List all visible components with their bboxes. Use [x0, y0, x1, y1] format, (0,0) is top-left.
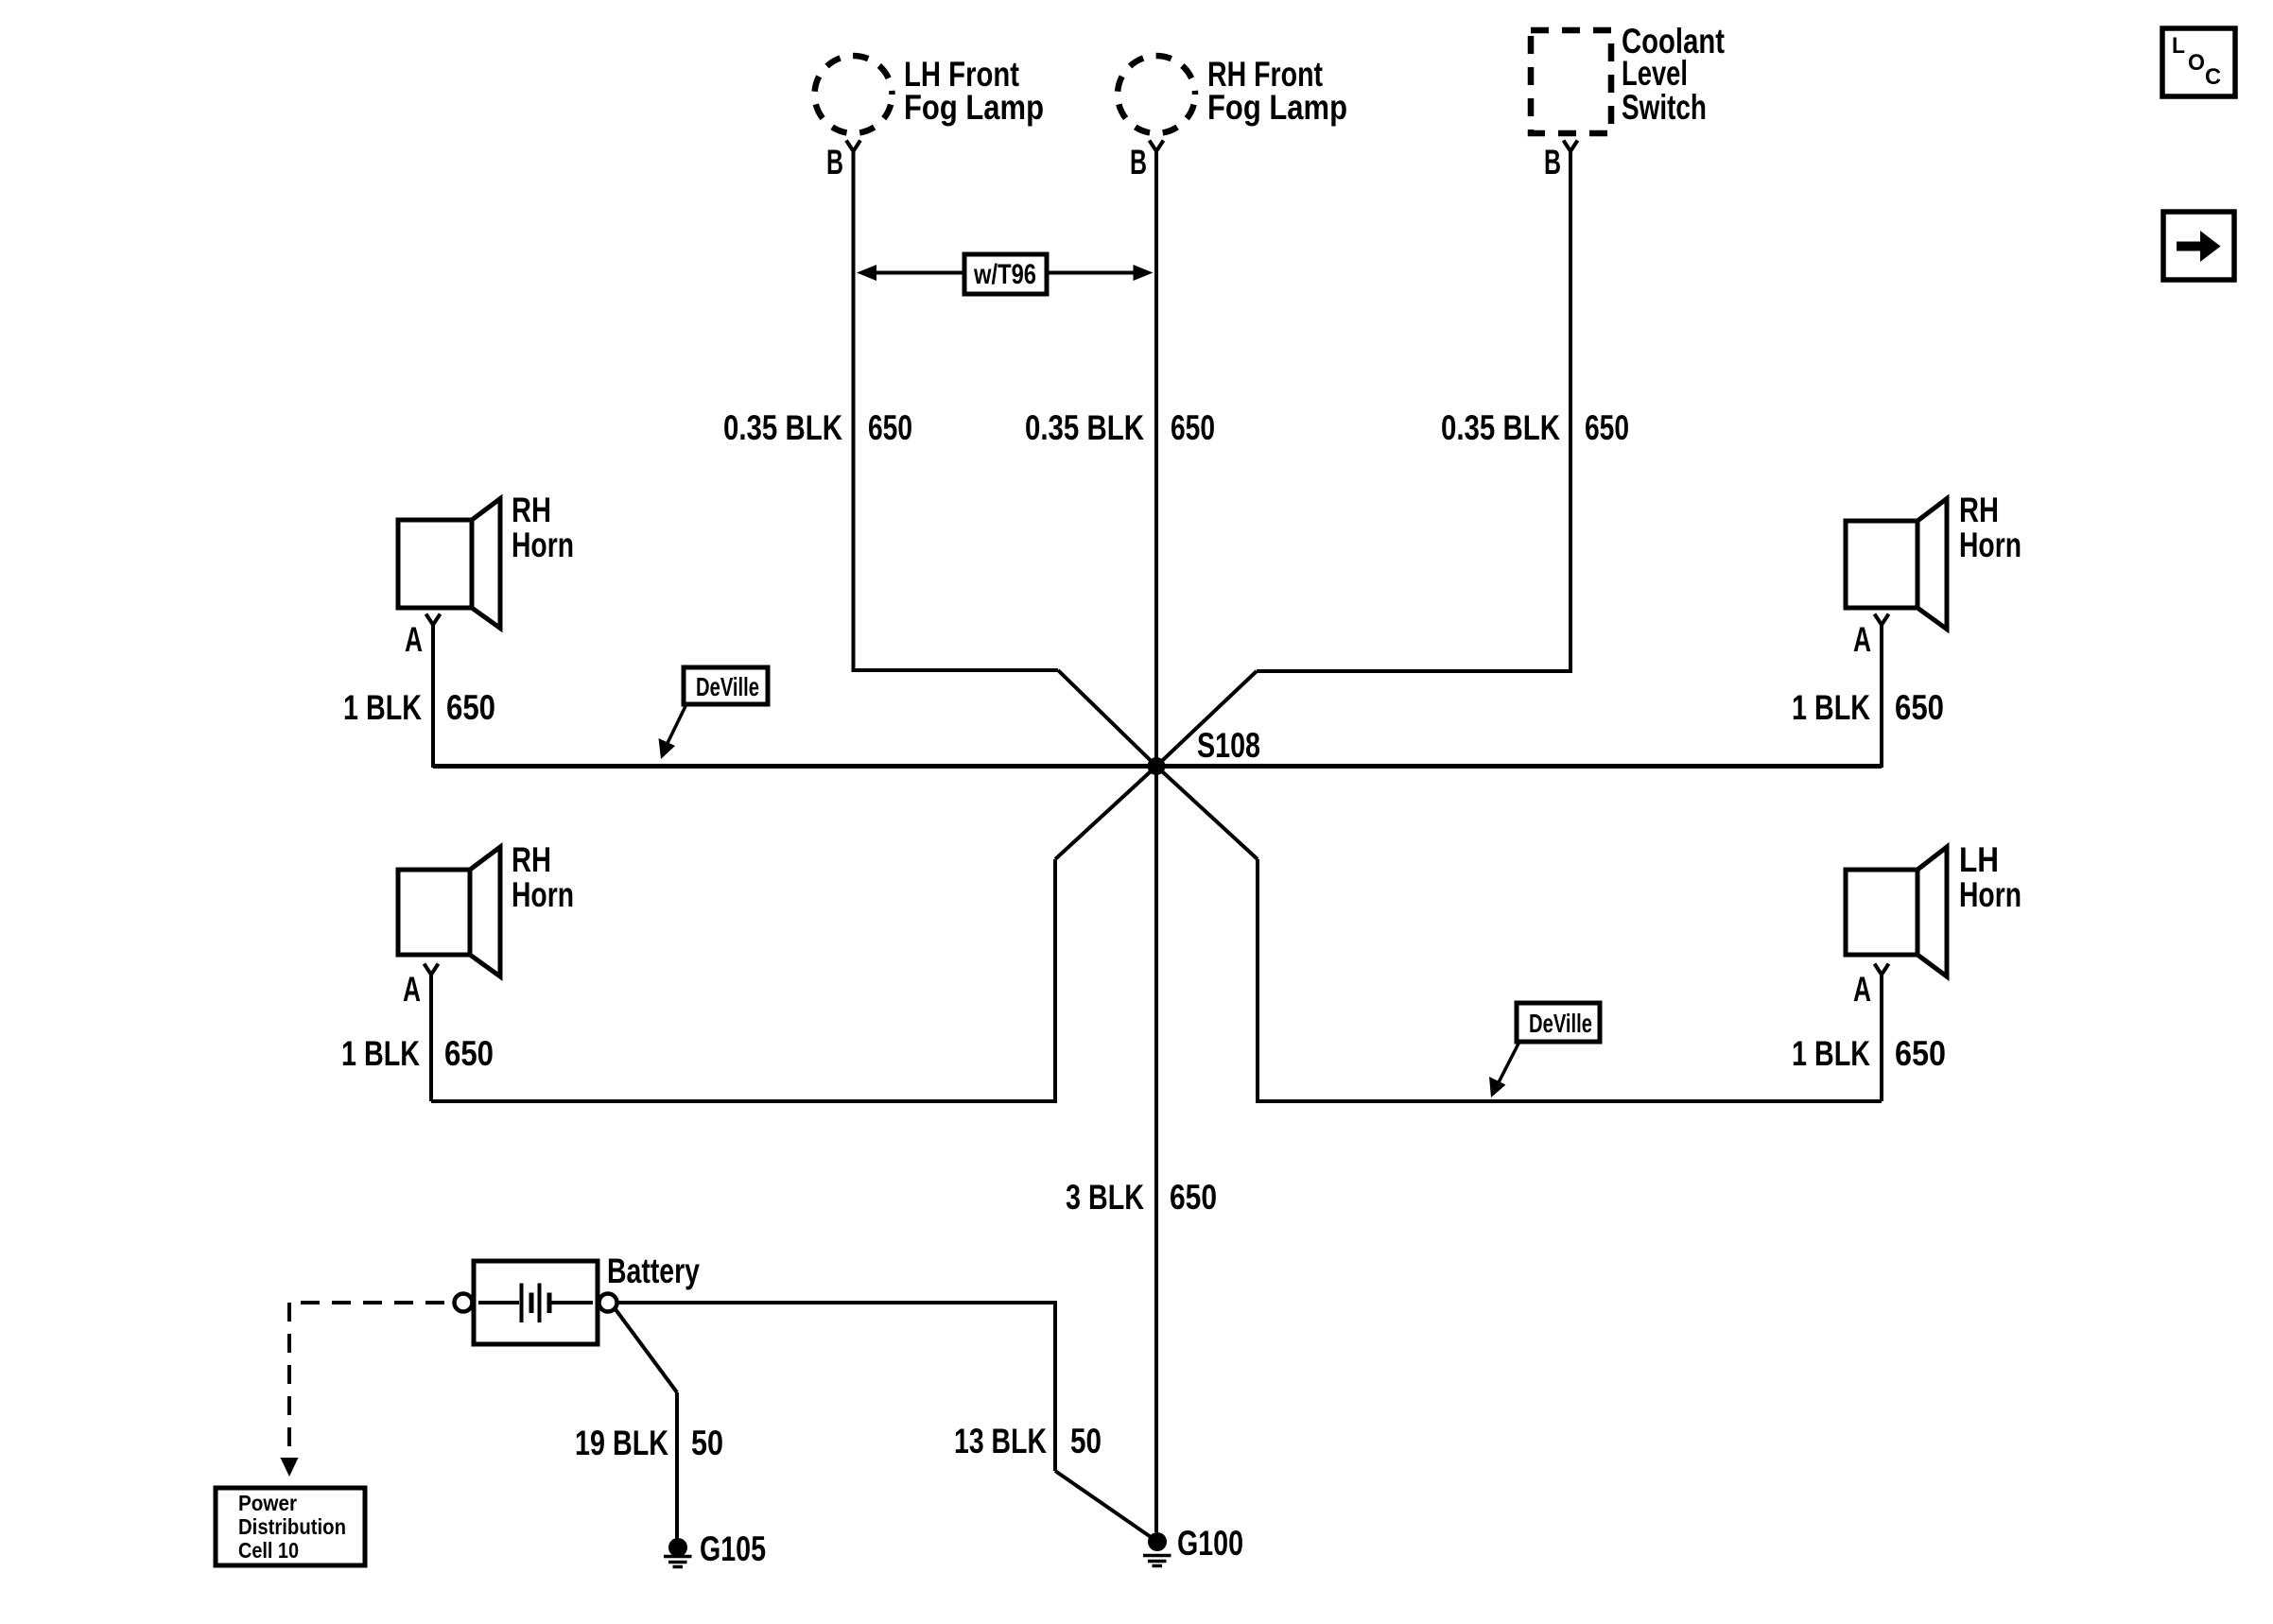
svg-text:DeVille: DeVille [1529, 1009, 1592, 1038]
splice node S108 dot [1148, 757, 1166, 775]
svg-text:L: L [2172, 33, 2185, 59]
wire from lower-right horn down [1880, 975, 1883, 1101]
wire lower-right horizontal [1256, 1099, 1882, 1103]
DeVille callout box (lower right) [1517, 1003, 1600, 1042]
RH Horn lower-left label [512, 840, 574, 914]
svg-text:Horn: Horn [512, 875, 574, 914]
wire coolant horizontal jog [1257, 669, 1572, 673]
wire coolant diagonal into S108 [1156, 671, 1257, 767]
pin label A (lower-right horn) [1853, 970, 1871, 1009]
pin B connector Y of coolant level switch [1564, 141, 1578, 152]
wire S108 diagonal down-left [1055, 767, 1156, 860]
svg-text:Fog Lamp: Fog Lamp [1207, 88, 1347, 127]
wire from top-left horn down to main horizontal [431, 625, 435, 768]
dashed wire from battery to power distribution [289, 1301, 444, 1304]
svg-text:A: A [405, 620, 423, 659]
wire label 19 BLK 50 [575, 1424, 723, 1462]
svg-text:650: 650 [446, 688, 495, 727]
battery cell symbol [478, 1284, 593, 1323]
main horizontal wire through S108 [433, 764, 1882, 769]
w/T96 harness range arrow (double-headed) [872, 271, 1138, 275]
pin label B (coolant level switch) [1544, 143, 1561, 181]
wire from RH fog lamp straight down through S108 to G100 [1154, 151, 1158, 1532]
wire label 0.35 BLK 650 (LH fog) [723, 408, 912, 447]
svg-text:B: B [826, 143, 843, 181]
wire lower-left vertical riser [1053, 859, 1057, 1099]
svg-text:RH: RH [512, 491, 551, 529]
svg-text:1 BLK: 1 BLK [1792, 1034, 1870, 1073]
DeVille callout arrow (upper) [668, 704, 686, 743]
arrowhead to power distribution box [281, 1458, 299, 1477]
wire lower-left horizontal [431, 1099, 1057, 1103]
svg-text:G100: G100 [1177, 1524, 1243, 1563]
wire from coolant level switch down [1569, 151, 1572, 671]
svg-text:0.35 BLK: 0.35 BLK [1441, 408, 1560, 447]
node label S108 [1197, 726, 1260, 765]
svg-text:1 BLK: 1 BLK [1792, 688, 1870, 727]
svg-text:Horn: Horn [1959, 875, 2021, 914]
svg-text:650: 650 [1895, 688, 1944, 727]
Power Distribution Cell 10 box [216, 1488, 365, 1565]
pin A connector Y (top-left horn) [426, 614, 441, 626]
wire S108 diagonal down-right [1156, 767, 1258, 860]
w/T96 label box [964, 254, 1047, 294]
ground label G100 [1177, 1524, 1243, 1563]
svg-text:13 BLK: 13 BLK [954, 1422, 1047, 1460]
svg-text:650: 650 [1170, 1178, 1217, 1217]
pin label B (LH fog lamp) [826, 143, 843, 181]
LH Horn lower-right label [1959, 840, 2021, 914]
LH Horn (lower right) speaker symbol [1846, 847, 1947, 976]
svg-text:19 BLK: 19 BLK [575, 1424, 668, 1462]
svg-text:Distribution: Distribution [238, 1514, 346, 1539]
svg-text:O: O [2188, 50, 2205, 76]
wire lower-right vertical riser [1256, 859, 1259, 1099]
wire label 0.35 BLK 650 (coolant) [1441, 408, 1629, 447]
arrow legend box (right) [2163, 212, 2234, 280]
RH Horn (lower left) speaker symbol [398, 847, 500, 976]
wire LH fog diagonal into S108 [1058, 670, 1156, 767]
wire from battery right terminal to G100 branch [616, 1301, 1057, 1304]
svg-text:1 BLK: 1 BLK [343, 688, 422, 727]
Battery box [474, 1261, 598, 1344]
svg-text:0.35 BLK: 0.35 BLK [1025, 408, 1144, 447]
DeVille callout box (upper left) [684, 667, 768, 704]
svg-text:C: C [2205, 64, 2221, 90]
LOC legend box (top right) [2162, 28, 2235, 96]
wire label 0.35 BLK 650 (RH fog) [1025, 408, 1215, 447]
wire from top-right horn down to main horizontal [1880, 625, 1883, 768]
svg-text:Fog Lamp: Fog Lamp [904, 88, 1044, 127]
svg-text:Switch: Switch [1622, 88, 1707, 127]
pin B connector Y of RH fog lamp [1150, 141, 1164, 152]
svg-text:Horn: Horn [512, 526, 574, 564]
pin label A (top-left horn) [405, 620, 423, 659]
svg-text:650: 650 [1585, 408, 1629, 447]
RH Front Fog Lamp (dashed circle) [1118, 56, 1195, 133]
svg-text:0.35 BLK: 0.35 BLK [723, 408, 842, 447]
svg-text:50: 50 [691, 1424, 723, 1462]
svg-text:RH: RH [1959, 491, 1999, 529]
pin label B (RH fog lamp) [1130, 143, 1147, 181]
RH fog lamp label [1207, 55, 1347, 127]
wire label 1 BLK 650 (lower-left horn) [341, 1034, 494, 1073]
svg-text:650: 650 [1171, 408, 1215, 447]
svg-text:1 BLK: 1 BLK [341, 1034, 420, 1073]
svg-text:RH: RH [512, 840, 551, 879]
wire label 1 BLK 650 (top-right horn) [1792, 688, 1944, 727]
RH Horn (top right) speaker symbol [1846, 499, 1947, 630]
ground label G105 [700, 1529, 766, 1568]
DeVille callout arrow (lower) [1499, 1042, 1519, 1082]
svg-text:Horn: Horn [1959, 526, 2021, 564]
wire battery branch diagonal to G100 [1055, 1471, 1154, 1539]
svg-text:3 BLK: 3 BLK [1066, 1178, 1144, 1217]
LH Front Fog Lamp (dashed circle) [815, 56, 893, 133]
ground G100 symbol [1143, 1532, 1171, 1566]
svg-text:w/T96: w/T96 [973, 259, 1036, 290]
svg-text:Power: Power [238, 1491, 297, 1515]
svg-text:650: 650 [868, 408, 912, 447]
ground G105 symbol [664, 1538, 692, 1567]
svg-text:650: 650 [1895, 1034, 1946, 1073]
LH fog lamp label [904, 55, 1044, 127]
coolant level switch label [1622, 22, 1725, 127]
Battery label [607, 1252, 700, 1290]
svg-text:LH: LH [1959, 840, 1999, 879]
svg-text:650: 650 [444, 1034, 494, 1073]
svg-text:B: B [1544, 143, 1561, 181]
svg-text:DeVille: DeVille [696, 672, 759, 701]
wire battery diagonal to G105 [616, 1309, 678, 1393]
svg-text:50: 50 [1070, 1422, 1102, 1460]
RH Horn (top left) speaker symbol [398, 499, 500, 629]
svg-text:Cell 10: Cell 10 [238, 1538, 299, 1563]
svg-text:Level: Level [1622, 54, 1688, 93]
pin B connector Y of LH fog lamp [846, 141, 860, 152]
wire label 13 BLK 50 [954, 1422, 1102, 1460]
svg-text:A: A [1853, 620, 1871, 659]
wire down to G105 [675, 1392, 679, 1539]
svg-text:A: A [1853, 970, 1871, 1009]
wire label 1 BLK 650 (top-left horn) [343, 688, 495, 727]
Coolant Level Switch (dashed rectangle) [1531, 30, 1611, 133]
pin label A (top-right horn) [1853, 620, 1871, 659]
svg-text:S108: S108 [1197, 726, 1260, 765]
svg-text:A: A [403, 970, 421, 1009]
wire label 1 BLK 650 (lower-right horn) [1792, 1034, 1946, 1073]
pin A connector Y (lower-left horn) [425, 964, 439, 976]
wire from LH fog lamp down [852, 151, 856, 670]
wire LH fog horizontal jog [852, 668, 1059, 672]
wire label 3 BLK 650 [1066, 1178, 1217, 1217]
svg-text:B: B [1130, 143, 1147, 181]
RH Horn top-right label [1959, 491, 2021, 564]
wire battery branch vertical [1053, 1303, 1057, 1471]
battery terminal circle (left) [455, 1294, 473, 1312]
pin A connector Y (top-right horn) [1875, 614, 1889, 626]
svg-text:G105: G105 [700, 1529, 766, 1568]
pin A connector Y (lower-right horn) [1875, 964, 1889, 976]
pin label A (lower-left horn) [403, 970, 421, 1009]
svg-text:Battery: Battery [607, 1252, 700, 1290]
RH Horn top-left label [512, 491, 574, 564]
battery terminal circle (right) [599, 1294, 617, 1312]
wire from lower-left horn down [429, 975, 433, 1101]
